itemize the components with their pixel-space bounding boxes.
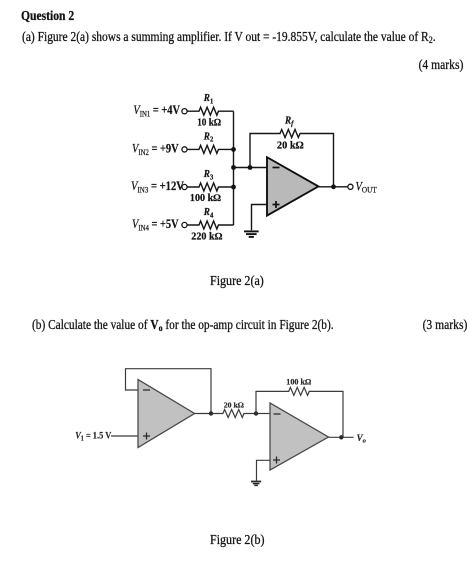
svg-text:Rf: Rf [284, 115, 294, 128]
svg-text:VIN1 = +4V: VIN1 = +4V [133, 105, 180, 119]
svg-text:R4: R4 [203, 207, 214, 220]
svg-text:V1 = 1.5 V: V1 = 1.5 V [75, 430, 112, 443]
svg-text:100 kΩ: 100 kΩ [286, 378, 311, 387]
svg-text:R1: R1 [203, 93, 214, 106]
svg-text:10 kΩ: 10 kΩ [197, 117, 221, 129]
svg-text:R3: R3 [203, 169, 214, 182]
svg-text:100 kΩ: 100 kΩ [190, 193, 221, 204]
svg-text:VIN4 = +5V: VIN4 = +5V [132, 218, 179, 232]
svg-text:Vo: Vo [357, 433, 367, 445]
svg-text:VIN2 = +9V: VIN2 = +9V [132, 143, 179, 157]
svg-text:VIN3 = +12V: VIN3 = +12V [131, 180, 185, 194]
svg-text:220 kΩ: 220 kΩ [191, 232, 222, 243]
svg-text:20 kΩ: 20 kΩ [224, 401, 244, 410]
svg-text:VOUT: VOUT [356, 181, 377, 195]
svg-text:20 kΩ: 20 kΩ [277, 140, 304, 151]
svg-text:R2: R2 [203, 131, 214, 144]
